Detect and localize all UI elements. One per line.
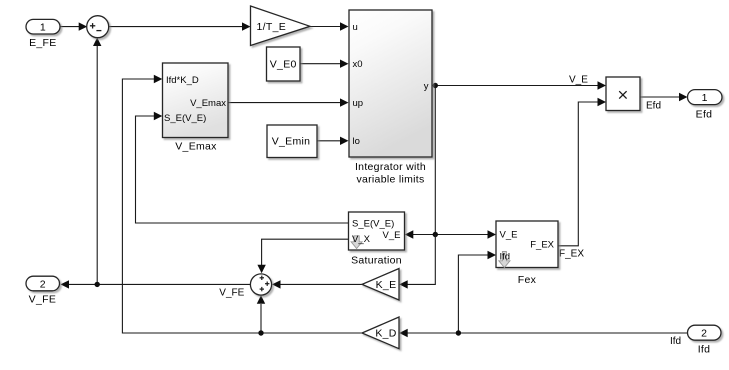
svg-text:Ifd: Ifd [670,336,681,347]
integrator with variable limits block [349,10,432,157]
svg-text:V_E: V_E [383,230,401,241]
wire Saturation output S_E(V_E) to V_Emax input 2 [136,112,349,223]
svg-text:S_E(V_E): S_E(V_E) [164,113,206,124]
svg-text:u: u [353,22,358,33]
wire integrator y to product in1 (V_E net) [432,81,606,89]
svg-text:y: y [424,81,429,92]
svg-text:V_Emax: V_Emax [190,98,226,109]
svg-text:1: 1 [40,22,46,34]
svg-text:S_E(V_E): S_E(V_E) [352,219,394,230]
junction dot on V_FE net [95,282,100,287]
gain K_D [362,317,399,349]
outport 2 V_FE [26,276,60,291]
gray arrow under Ifd port [499,251,510,267]
subsystem block V_Emax [163,63,229,138]
constant block V_E0 [267,47,301,81]
svg-text:V_X: V_X [352,234,371,245]
wire gain K_E output to sum S2 right input [272,280,362,288]
wire inport E_FE to sum S1 [60,22,87,30]
wire sum S1 to gain 1/T_E [109,22,251,30]
svg-text:variable limits: variable limits [356,173,424,185]
svg-text:V_E0: V_E0 [270,59,297,71]
subsystem block Fex [496,221,558,268]
inport 2 Ifd [688,325,722,340]
svg-text:V_Emin: V_Emin [272,136,311,148]
svg-text:E_FE: E_FE [29,37,56,49]
inport 1 E_FE [26,19,60,34]
svg-text:lo: lo [353,136,360,147]
gain K_E [362,269,399,301]
svg-text:Efd: Efd [646,101,661,112]
svg-text:F_EX: F_EX [559,248,584,259]
sum S2 [250,274,271,295]
junction dot on Ifd net [456,330,461,335]
svg-text:V_Emax: V_Emax [175,140,217,152]
svg-text:F_EX: F_EX [530,239,554,250]
svg-text:K_D: K_D [375,328,396,340]
saturation block [349,212,405,250]
svg-text:1/T_E: 1/T_E [257,21,287,33]
wire Ifd branch up to Fex port Ifd [458,251,496,333]
wire V_E branch to Saturation input [405,230,436,238]
wire V_E branch down from junction [434,86,436,235]
wire V_E branch to Fex port V_E [435,230,496,238]
svg-text:Ifd: Ifd [698,343,711,355]
svg-text:V_E: V_E [569,75,588,86]
wire Saturation output V_X down to sum S2 top input [257,239,348,273]
svg-text:V_E: V_E [500,230,518,241]
svg-text:K_E: K_E [376,279,397,291]
svg-text:V_FE: V_FE [29,294,56,306]
wire sum S2 output to outport V_FE [61,280,251,288]
svg-text:V_FE: V_FE [219,288,244,299]
constant block V_Emin [267,125,317,158]
wire V_Emax output to integrator port up [228,98,349,106]
svg-text:Saturation: Saturation [351,254,402,266]
sum S1 [87,16,109,38]
junction dot on integrator y output [433,83,438,88]
svg-text:Ifd: Ifd [500,251,511,262]
wire V_Emin to integrator port lo [317,137,349,145]
svg-text:2: 2 [701,328,707,340]
wire branch up from K_D output net to sum S2 bottom input [257,295,265,333]
wire gain 1/T_E to integrator port u [310,22,349,30]
svg-text:Fex: Fex [518,274,537,286]
product block [606,77,640,111]
svg-text:Efd: Efd [696,109,713,121]
junction dot on K_D output net [258,330,263,335]
gain 1/T_E [251,6,311,46]
wire branch up from V_FE net to sum S1 minus input [93,38,101,285]
svg-text:1: 1 [702,92,708,104]
wire gain K_D output to V_Emax input 1 [122,75,362,333]
svg-text:Ifd*K_D: Ifd*K_D [166,75,199,86]
wire Fex output F_EX up to product in2 [558,98,606,246]
svg-text:2: 2 [40,278,46,290]
svg-text:x0: x0 [353,59,363,70]
svg-text:up: up [353,98,364,109]
wire V_E0 to integrator port x0 [300,60,349,68]
svg-text:Integrator with: Integrator with [355,161,426,173]
gray arrow under V_X port [351,236,362,249]
outport 1 Efd [688,90,723,105]
wire V_E branch down to gain K_E input [399,235,435,289]
wire product output to outport Efd [640,93,688,101]
junction dot on V_E vertical at Saturation branch [433,232,438,237]
wire inport Ifd to gain K_D input [399,329,687,337]
